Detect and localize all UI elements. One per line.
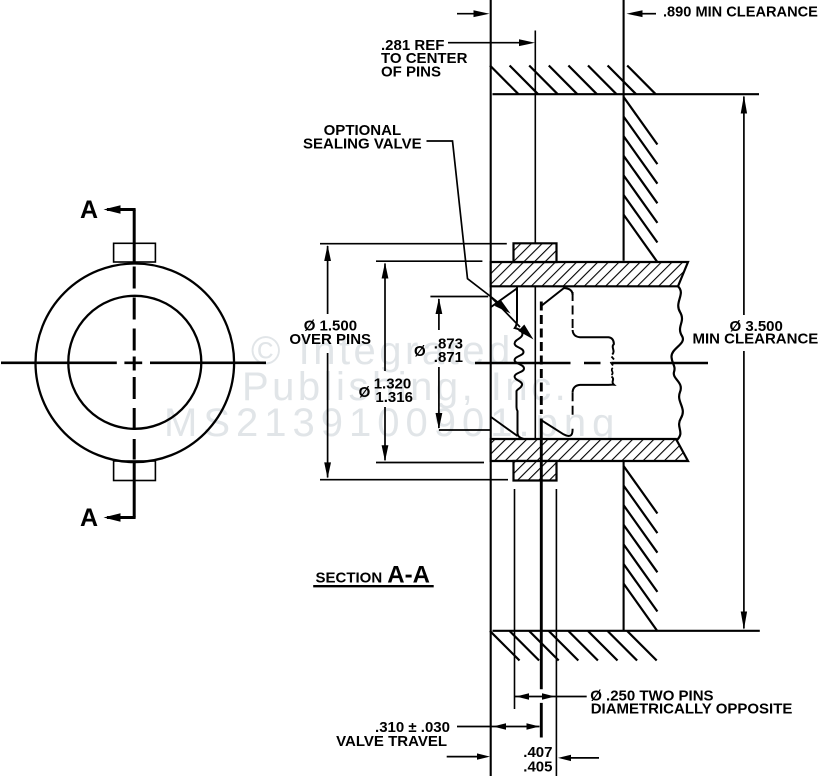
body: bottom flange hatched [491, 439, 688, 461]
hatch: wall band above top edge [490, 66, 656, 95]
body: top flange hatched [491, 262, 688, 286]
svg-text:.871: .871 [434, 349, 463, 366]
section: pin center extension line [534, 31, 536, 482]
svg-text:Ø: Ø [359, 384, 371, 401]
svg-text:SECTION: SECTION [316, 569, 383, 586]
svg-text:Ø: Ø [414, 343, 426, 360]
svg-text:.890 MIN CLEARANCE: .890 MIN CLEARANCE [663, 4, 818, 20]
left view: section arrow bottom, label A [80, 504, 136, 532]
svg-text:MIN CLEARANCE: MIN CLEARANCE [692, 331, 818, 348]
dimension: dia 3.500 MIN CLEARANCE [743, 97, 745, 629]
poppet: lower head outline [573, 377, 614, 393]
section: envelope bottom edge [493, 630, 760, 632]
svg-text:1.316: 1.316 [375, 389, 413, 406]
left view: inner circle [68, 296, 201, 429]
hatch: wall band below bottom edge [490, 631, 657, 661]
extension line: pin right edge [555, 489, 557, 776]
section: envelope top edge [493, 93, 760, 95]
seal: lower lip cone line [491, 417, 518, 436]
stem: centerline dashed thick [540, 302, 543, 738]
left view: section arrow top, label A [80, 196, 136, 224]
left view: outer circle [36, 264, 235, 463]
svg-text:DIAMETRICALLY OPPOSITE: DIAMETRICALLY OPPOSITE [591, 701, 793, 718]
svg-text:OVER PINS: OVER PINS [289, 331, 371, 348]
left view: bottom pin [114, 461, 156, 481]
svg-text:.405: .405 [523, 759, 552, 776]
dimension: .890 MIN CLEARANCE [457, 13, 656, 15]
poppet: upper hidden edge dashed [572, 292, 574, 330]
section: horizontal centerline [475, 362, 708, 365]
body: bottom pin boss hatched [514, 461, 557, 481]
section: panel face line full height [490, 0, 492, 776]
dimension: dia 1.500 OVER PINS [320, 244, 508, 480]
section: wall right face upper [623, 0, 625, 261]
hatch: wall right of upper face [624, 97, 658, 262]
stem: bottom join diagonal with curl [542, 420, 573, 436]
poppet: upper head outline [573, 330, 614, 355]
left view: horizontal centerline [1, 361, 266, 364]
svg-text:VALVE TRAVEL: VALVE TRAVEL [336, 733, 447, 750]
svg-text:A: A [80, 196, 98, 224]
poppet: break marks at centerline [611, 357, 615, 376]
left view: section cutting plane line [133, 210, 136, 518]
body: top pin boss hatched [514, 243, 557, 262]
dimension: dia .873 / .871 [430, 297, 490, 431]
hatch: wall right of lower face [624, 466, 658, 631]
section: wall right face lower [623, 461, 625, 631]
svg-text:A-A: A-A [387, 561, 430, 588]
body: break wavy line right [671, 286, 682, 441]
svg-text:A: A [80, 504, 98, 532]
svg-text:OF PINS: OF PINS [381, 64, 441, 81]
extension line: pin left edge [514, 489, 516, 709]
dimension: dia .250 TWO PINS DIAMETRICALLY OPPOSITE [515, 696, 587, 698]
dimension: dia 1.320 / 1.316 [376, 261, 484, 462]
svg-text:SEALING VALVE: SEALING VALVE [303, 135, 422, 152]
seal: upper lip cone line [491, 288, 518, 307]
leader: sealing valve pointer [427, 141, 521, 327]
left view: top pin [114, 243, 156, 262]
seal: corrugated left profile [515, 286, 524, 439]
stem: top join diagonal [542, 288, 573, 306]
poppet: lower hidden edge dashed [572, 392, 574, 419]
